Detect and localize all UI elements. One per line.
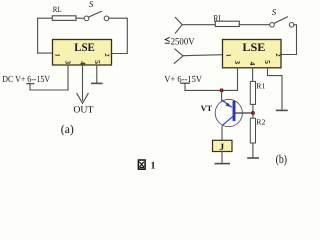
pin 4 label (a): [78, 61, 87, 65]
node: input terminal top (b): [175, 17, 182, 33]
switch S (a): [84, 11, 109, 20]
label RL (b): [213, 14, 223, 24]
relay coil J: [213, 140, 233, 153]
svg-text:2: 2: [103, 53, 110, 56]
wire: junction to R2: [252, 113, 254, 118]
svg-text:3: 3: [64, 60, 73, 64]
svg-text:S: S: [89, 0, 94, 9]
label VT: [201, 104, 213, 113]
svg-text:DC V+ 6--15V: DC V+ 6--15V: [2, 75, 50, 85]
svg-text:(b): (b): [276, 152, 288, 166]
pin 4 label (b): [248, 62, 257, 66]
wire: switch (b) down to pin 2: [281, 25, 297, 55]
resistor R1: [250, 81, 255, 104]
pin 1 label (a): [53, 53, 60, 56]
svg-text:5: 5: [263, 60, 272, 64]
resistor R2: [250, 118, 255, 143]
label (b): [276, 152, 288, 166]
wire: RL (b) to switch: [239, 24, 269, 26]
wire: R1 to base junction: [252, 104, 254, 113]
ground: output terminal bar (b): [277, 109, 287, 111]
resistor RL (b): [215, 21, 239, 26]
label (a): [61, 122, 74, 136]
wire: pin 4 (a) down to OUT: [82, 65, 84, 100]
pin 2 label (b): [274, 53, 281, 56]
wire: RL (a) to switch: [76, 17, 84, 19]
node: junction V+ rail / emitter: [220, 88, 224, 92]
wire: VT collector down to relay J: [221, 127, 223, 141]
wire: switch (a) to pin 2: [109, 18, 128, 53]
node: supply tick under V+ label (b): [181, 82, 190, 84]
ground: pin 5 terminal bar (a): [92, 82, 102, 84]
wire: circuit (a) top-left loop from RL to pin 1: [38, 18, 53, 53]
svg-text:5: 5: [93, 60, 102, 64]
svg-text:1: 1: [53, 53, 60, 56]
node: OUT arrow (a): [77, 93, 88, 103]
svg-text:OUT: OUT: [73, 104, 93, 115]
svg-text:(a): (a): [61, 122, 74, 136]
svg-text:1: 1: [151, 161, 156, 172]
svg-text:1: 1: [224, 54, 231, 57]
pin 2 label (a): [103, 53, 110, 56]
svg-text:3: 3: [233, 60, 242, 64]
ground: R2 terminal bar: [248, 157, 258, 159]
label DC V+ 6--15V: [2, 75, 50, 85]
label OUT: [73, 104, 93, 115]
wire: pin 3 (a) down and left to supply point: [30, 65, 68, 90]
wire: V+ rail to pin 3 (b): [185, 68, 238, 90]
svg-text:LSE: LSE: [74, 42, 95, 54]
switch S (b): [270, 17, 294, 27]
pin 3 label (a): [64, 60, 73, 64]
wire: pin 5 (a) down to ground: [96, 65, 98, 83]
label ≤2500V: [165, 36, 194, 47]
svg-text:VT: VT: [201, 104, 213, 113]
op-amp U1: LSE module (a): [53, 40, 112, 66]
svg-text:2500V: 2500V: [171, 36, 195, 47]
label RL (a): [53, 5, 62, 14]
node: junction base / R1 / R2: [251, 111, 255, 115]
label R1: [256, 81, 265, 90]
wire: R2 down to ground: [252, 143, 254, 157]
wire: pin 4 (b) down to R1: [252, 68, 254, 81]
svg-text:S: S: [272, 7, 277, 17]
ground: relay J terminal bar: [215, 163, 229, 165]
label V+ 6--15V: [164, 75, 202, 85]
pin 3 label (b): [233, 60, 242, 64]
transistor VT (PNP): [215, 99, 253, 126]
label S (b): [272, 7, 277, 17]
caption 图 1 (figure 1): [138, 160, 155, 172]
pin 5 label (b): [263, 60, 272, 64]
op-amp U2: LSE module (b): [223, 40, 282, 68]
resistor RL (a): [52, 16, 76, 21]
svg-text:R2: R2: [256, 118, 265, 127]
wire: top terminal to RL (b): [182, 24, 215, 26]
wire: lower terminal to pin 1 (b): [183, 55, 223, 56]
svg-text:LSE: LSE: [242, 42, 265, 54]
svg-text:2: 2: [274, 53, 281, 56]
wire: relay J down to ground: [221, 152, 223, 164]
svg-text:RL: RL: [53, 5, 62, 14]
node: supply tick under DC label (a): [27, 83, 34, 85]
pin 1 label (b): [224, 54, 231, 57]
wire: pin 5 (b) right and down to output terminal: [268, 68, 283, 110]
label S (a): [89, 0, 94, 9]
svg-text:R1: R1: [256, 81, 265, 90]
wire: junction down to VT emitter: [221, 90, 223, 100]
label R2: [256, 118, 265, 127]
pin 5 label (a): [93, 60, 102, 64]
node: input terminal lower (b): [174, 49, 183, 63]
svg-text:4: 4: [248, 62, 257, 66]
